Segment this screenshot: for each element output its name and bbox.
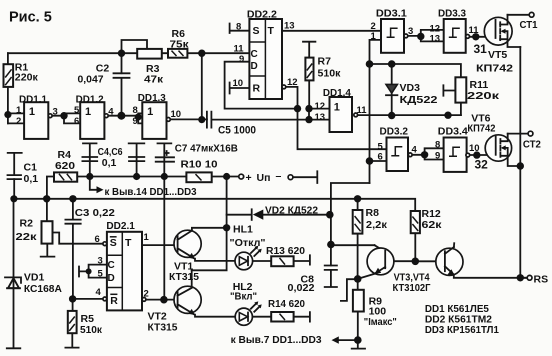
svg-text:13: 13	[315, 112, 326, 123]
svg-text:3: 3	[98, 256, 103, 267]
svg-text:31: 31	[474, 42, 488, 56]
svg-text:62к: 62к	[422, 219, 443, 231]
svg-text:C5 1000: C5 1000	[218, 125, 256, 137]
svg-text:12: 12	[287, 77, 298, 88]
svg-text:1: 1	[334, 102, 340, 114]
svg-text:C1: C1	[24, 162, 38, 174]
svg-text:220к: 220к	[467, 90, 500, 102]
svg-text:DD3.4: DD3.4	[438, 126, 468, 138]
svg-text:13: 13	[284, 21, 295, 32]
svg-text:СТ2: СТ2	[523, 139, 541, 151]
svg-text:3: 3	[408, 26, 413, 37]
svg-text:22к: 22к	[16, 231, 38, 243]
svg-text:T: T	[268, 25, 275, 37]
svg-text:T: T	[125, 237, 132, 249]
svg-text:DD3.2: DD3.2	[380, 126, 409, 138]
svg-text:8: 8	[435, 140, 440, 151]
svg-text:1: 1	[85, 106, 91, 118]
svg-text:DD2.1: DD2.1	[106, 220, 135, 232]
svg-text:DD3.3: DD3.3	[438, 8, 466, 20]
svg-text:DD1.3: DD1.3	[138, 92, 166, 104]
svg-text:"Откл": "Откл"	[230, 237, 266, 249]
svg-text:Uп: Uп	[257, 172, 271, 184]
svg-text:0,022: 0,022	[288, 282, 315, 294]
svg-text:9: 9	[239, 54, 244, 65]
svg-text:+: +	[246, 172, 252, 184]
svg-text:КП742: КП742	[476, 63, 513, 75]
svg-text:"Вкл": "Вкл"	[230, 291, 257, 303]
svg-text:D: D	[108, 273, 115, 284]
svg-text:8: 8	[133, 105, 138, 116]
svg-text:13: 13	[430, 34, 441, 45]
svg-text:HL1: HL1	[233, 224, 253, 236]
svg-text:КС168А: КС168А	[24, 283, 62, 295]
svg-text:D: D	[251, 61, 258, 72]
svg-text:6: 6	[378, 152, 383, 163]
svg-text:R10 10: R10 10	[181, 159, 218, 171]
svg-text:2: 2	[16, 116, 21, 127]
svg-text:VD3: VD3	[400, 82, 421, 94]
svg-text:C7 47мкХ16В: C7 47мкХ16В	[175, 143, 238, 155]
svg-text:к Выв.14 DD1...DD3: к Выв.14 DD1...DD3	[105, 186, 197, 198]
svg-text:DD2.2: DD2.2	[247, 9, 277, 21]
svg-text:VD1: VD1	[24, 272, 45, 284]
svg-text:10: 10	[469, 143, 480, 154]
svg-text:VD2 КД522: VD2 КД522	[265, 205, 318, 217]
svg-text:5: 5	[98, 269, 104, 280]
svg-text:R7: R7	[318, 56, 332, 68]
svg-text:КП742: КП742	[467, 123, 495, 135]
svg-text:6: 6	[95, 234, 100, 245]
svg-text:DD1.1: DD1.1	[19, 94, 47, 106]
svg-text:R: R	[253, 83, 261, 95]
svg-text:0,1: 0,1	[102, 157, 117, 169]
svg-text:11: 11	[357, 105, 368, 116]
svg-text:1: 1	[371, 31, 377, 42]
svg-text:6: 6	[74, 116, 79, 127]
svg-text:КТ3102Г: КТ3102Г	[393, 282, 431, 294]
svg-text:2,2к: 2,2к	[366, 219, 388, 231]
svg-text:DD3 КР1561ТЛ1: DD3 КР1561ТЛ1	[425, 324, 499, 336]
svg-text:5: 5	[74, 105, 80, 116]
svg-text:S: S	[110, 237, 117, 249]
svg-text:4: 4	[412, 145, 418, 156]
svg-text:"Iмакс": "Iмакс"	[364, 316, 397, 328]
svg-text:11: 11	[469, 25, 480, 36]
svg-text:СТ1: СТ1	[520, 19, 538, 31]
svg-text:47к: 47к	[144, 74, 164, 86]
svg-text:R: R	[110, 295, 118, 307]
svg-text:32: 32	[475, 158, 489, 172]
svg-text:4: 4	[108, 107, 114, 118]
svg-text:Рис. 5: Рис. 5	[9, 10, 52, 26]
svg-text:R8: R8	[366, 207, 380, 219]
svg-text:1: 1	[144, 232, 150, 243]
svg-text:R2: R2	[20, 218, 34, 230]
svg-text:DD1.2: DD1.2	[76, 94, 104, 106]
svg-text:DD1.4: DD1.4	[323, 87, 351, 99]
svg-text:S: S	[253, 25, 260, 37]
svg-text:КТ315: КТ315	[169, 271, 199, 283]
svg-text:1: 1	[29, 106, 35, 118]
svg-text:2: 2	[144, 289, 149, 300]
svg-text:КД522: КД522	[400, 94, 438, 106]
svg-text:–: –	[276, 170, 282, 182]
svg-text:0,047: 0,047	[78, 74, 104, 86]
svg-text:DD3.1: DD3.1	[376, 8, 407, 20]
svg-text:75к: 75к	[170, 39, 190, 51]
svg-text:3: 3	[53, 107, 58, 118]
svg-text:R13 620: R13 620	[266, 245, 305, 257]
svg-text:510к: 510к	[318, 68, 342, 80]
svg-text:220к: 220к	[15, 72, 39, 84]
svg-text:1: 1	[16, 105, 22, 116]
svg-text:C: C	[108, 260, 115, 271]
svg-text:0,1: 0,1	[24, 173, 39, 185]
svg-text:4: 4	[96, 287, 102, 298]
svg-text:12: 12	[315, 101, 326, 112]
svg-text:R14 620: R14 620	[268, 298, 305, 310]
svg-text:КТ315: КТ315	[148, 322, 178, 334]
svg-text:9: 9	[435, 151, 440, 162]
svg-text:8: 8	[236, 22, 241, 33]
svg-text:620: 620	[55, 160, 75, 172]
svg-text:9: 9	[133, 116, 138, 127]
svg-text:C3 0,22: C3 0,22	[75, 207, 115, 219]
svg-text:RS: RS	[534, 274, 549, 286]
svg-text:1: 1	[147, 106, 153, 118]
svg-text:VT5: VT5	[488, 49, 507, 61]
svg-text:11: 11	[234, 44, 245, 55]
svg-text:к Выв.7 DD1...DD3: к Выв.7 DD1...DD3	[231, 334, 322, 346]
svg-text:510к: 510к	[80, 324, 103, 336]
svg-text:C: C	[251, 49, 258, 60]
svg-text:10: 10	[171, 109, 182, 120]
svg-text:10: 10	[233, 78, 244, 89]
